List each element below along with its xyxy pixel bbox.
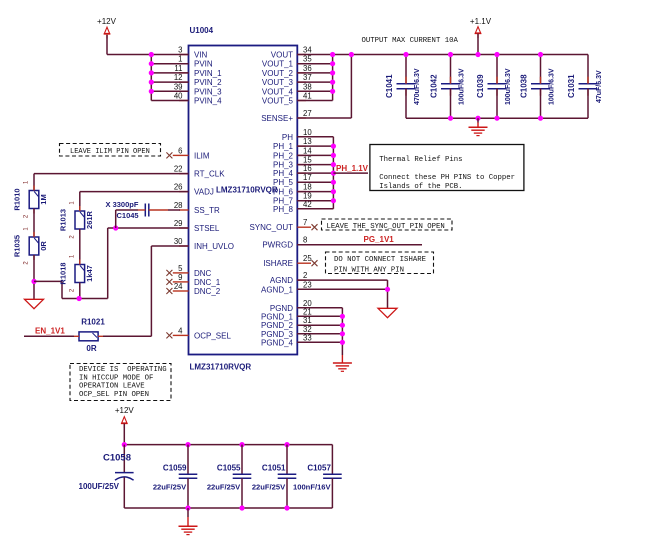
svg-text:VOUT_1: VOUT_1 (262, 60, 294, 69)
capacitor C1055 22uF/25V (207, 464, 251, 492)
wire input cap bottom rail (124, 507, 332, 509)
svg-text:DEVICE IS OPERATING: DEVICE IS OPERATING (79, 366, 167, 374)
junction dots on PH bus (331, 144, 336, 204)
svg-text:PH_2: PH_2 (273, 151, 294, 160)
wire C1042 bottom lead (450, 89, 452, 119)
svg-text:0R: 0R (86, 344, 96, 353)
wire C1055 bottom lead (241, 478, 243, 508)
svg-text:C1051: C1051 (262, 464, 286, 473)
capacitor C1045 3300pF (106, 200, 149, 220)
wire +12V to PVIN bus (107, 35, 151, 55)
no-connect X on ILIM pin 6 (166, 152, 172, 158)
svg-text:261R: 261R (85, 210, 94, 229)
svg-text:VOUT_4: VOUT_4 (262, 87, 294, 96)
pin 9 DNC_1 (left) (173, 273, 221, 287)
junction dots on VOUT bus (330, 52, 335, 94)
resistor R1035 0R (13, 227, 49, 265)
wire C1031 bottom lead (587, 89, 589, 119)
resistor R1021 0R (74, 318, 105, 354)
svg-text:R1021: R1021 (81, 318, 105, 327)
svg-text:LMZ31710RVQR: LMZ31710RVQR (216, 185, 278, 194)
pin 23 AGND_1 (right) (261, 280, 312, 294)
pin 18 PH_6 (right) (273, 183, 312, 197)
svg-text:22uF/25V: 22uF/25V (207, 482, 241, 491)
svg-text:SYNC_OUT: SYNC_OUT (249, 223, 293, 232)
svg-text:PVIN_4: PVIN_4 (194, 97, 222, 106)
pin 1 PVIN (left) (178, 55, 213, 69)
wire C1051 top lead (286, 445, 288, 475)
wire PGND branches (297, 308, 342, 343)
svg-text:3: 3 (178, 46, 182, 55)
pin 26 VADJ (left) (174, 183, 214, 197)
svg-text:LEAVE ILIM PIN OPEN: LEAVE ILIM PIN OPEN (70, 148, 150, 156)
capacitor C1051 22uF/25V (252, 464, 296, 492)
wire input cap top rail (124, 444, 332, 446)
svg-text:C1042: C1042 (430, 74, 439, 98)
pin 40 PVIN_4 (left) (174, 92, 222, 106)
svg-text:Connect these PH PINS to Coppe: Connect these PH PINS to Copper (379, 174, 515, 182)
wire SENSE+ riser (297, 55, 351, 119)
svg-text:9: 9 (178, 273, 182, 282)
svg-text:7: 7 (303, 218, 307, 227)
pin 38 VOUT_4 (right) (262, 82, 312, 96)
note box LEAVE ILIM PIN OPEN (60, 144, 161, 157)
svg-text:33: 33 (303, 333, 312, 342)
note box DO NOT CONNECT ISHARE (326, 252, 434, 274)
pin 42 PH_8 (right) (273, 200, 312, 214)
wire C1038 bottom lead (540, 89, 542, 119)
wire PGND bus (341, 308, 343, 363)
pin 5 DNC (left) (173, 264, 212, 278)
svg-text:C1041: C1041 (385, 74, 394, 98)
ground (triangle) AGND (378, 308, 397, 317)
no-connect X on DNC pin 5 (166, 270, 172, 276)
svg-text:OCP_SEL: OCP_SEL (194, 331, 231, 340)
svg-text:1M: 1M (39, 194, 48, 204)
wire C1045 right plate to SS_TR (149, 209, 180, 211)
svg-text:AGND: AGND (270, 276, 293, 285)
svg-text:14: 14 (303, 146, 312, 155)
junction dots on PVIN bus (149, 52, 154, 94)
svg-text:VIN: VIN (194, 51, 208, 60)
svg-text:28: 28 (174, 201, 183, 210)
svg-text:PVIN_1: PVIN_1 (194, 69, 222, 78)
pin 36 VOUT_2 (right) (262, 64, 312, 78)
svg-text:LEAVE THE SYNC_OUT PIN OPEN: LEAVE THE SYNC_OUT PIN OPEN (327, 223, 445, 231)
svg-text:23: 23 (303, 280, 312, 289)
wire C1039 bottom lead (496, 89, 498, 119)
wire C1041 top lead (405, 55, 407, 84)
svg-text:470uF/6.3V: 470uF/6.3V (414, 68, 421, 105)
wire C1041 bottom lead (405, 89, 407, 119)
svg-text:39: 39 (174, 82, 183, 91)
svg-text:R1018: R1018 (58, 262, 67, 284)
pin 30 INH_UVLO (left) (174, 237, 234, 251)
svg-text:30: 30 (174, 237, 183, 246)
pin 3 VIN (left) (178, 46, 207, 60)
svg-text:100uF/6.3V: 100uF/6.3V (505, 68, 512, 105)
pin 8 PWRGD (right) (262, 236, 307, 250)
net label EN_1V1 (35, 327, 65, 336)
wire AGND node to divider bottom rail (34, 281, 108, 298)
svg-text:C1055: C1055 (217, 464, 241, 473)
no-connect X on DNC_2 pin 24 (166, 288, 172, 294)
resistor R1018 1k47 (58, 254, 94, 292)
wire R1010 to R1035 (33, 209, 35, 238)
svg-text:R1035: R1035 (13, 235, 22, 257)
wire +1.1V riser (477, 34, 479, 55)
svg-text:16: 16 (303, 164, 312, 173)
svg-text:0R: 0R (39, 241, 48, 251)
svg-text:OCP_SEL PIN OPEN: OCP_SEL PIN OPEN (79, 391, 149, 399)
no-connect X on OCP_SEL pin 4 (166, 332, 172, 338)
pin 6 ILIM (left) (173, 146, 210, 160)
pin 14 PH_2 (right) (273, 146, 312, 160)
junction dots input rail top (122, 442, 290, 447)
svg-text:29: 29 (174, 219, 183, 228)
pin 16 PH_4 (right) (273, 164, 312, 178)
pin 34 VOUT (right) (271, 46, 313, 60)
svg-text:C1057: C1057 (307, 464, 331, 473)
svg-text:41: 41 (303, 92, 312, 101)
svg-text:SENSE+: SENSE+ (261, 114, 293, 123)
svg-text:11: 11 (174, 64, 182, 73)
svg-text:6: 6 (178, 146, 182, 155)
svg-text:100uF/6.3V: 100uF/6.3V (459, 68, 466, 105)
pin 13 PH_1 (right) (273, 137, 312, 151)
wire PVIN branches to pins (151, 55, 188, 101)
svg-text:17: 17 (303, 173, 312, 182)
svg-text:PGND_1: PGND_1 (261, 312, 294, 321)
svg-text:AGND_1: AGND_1 (261, 285, 294, 294)
ground (triangle, analog) (25, 299, 44, 308)
svg-text:PH_1.1V: PH_1.1V (336, 164, 369, 173)
svg-text:PH: PH (282, 133, 293, 142)
wire +12V stem bottom (123, 424, 125, 445)
power symbol +12V (bottom) (115, 406, 135, 428)
svg-text:PVIN_2: PVIN_2 (194, 78, 222, 87)
wire C1039 top lead (496, 55, 498, 84)
junction dot STSEL / C1045 node (113, 225, 118, 230)
ground (earth) PGND (333, 363, 352, 371)
svg-text:DNC: DNC (194, 269, 212, 278)
wire C1055 top lead (241, 445, 243, 475)
svg-text:PG_1V1: PG_1V1 (364, 235, 395, 244)
svg-text:C1031: C1031 (567, 74, 576, 98)
pin 7 SYNC_OUT (right) (249, 218, 311, 232)
svg-text:DNC_1: DNC_1 (194, 278, 221, 287)
svg-text:12: 12 (174, 73, 183, 82)
svg-text:PH_1: PH_1 (273, 142, 294, 151)
svg-text:5: 5 (178, 264, 183, 273)
wire R1021 to INH riser (103, 335, 151, 337)
power symbol +12V (top left) (97, 17, 117, 39)
svg-text:VOUT: VOUT (271, 51, 293, 60)
svg-text:STSEL: STSEL (194, 224, 220, 233)
capacitor C1058 100UF/25V (polarized) (79, 445, 134, 508)
svg-text:ILIM: ILIM (194, 151, 210, 160)
wire PVIN input bus (150, 55, 152, 101)
svg-text:Islands of the PCB.: Islands of the PCB. (379, 183, 462, 191)
svg-text:VADJ: VADJ (194, 188, 214, 197)
svg-text:PH_8: PH_8 (273, 205, 294, 214)
pin 24 DNC_2 (left) (173, 282, 221, 296)
svg-text:34: 34 (303, 46, 312, 55)
wire C1051 bottom lead (286, 478, 288, 508)
junction dot R1018 bottom (77, 296, 82, 301)
svg-text:PH_5: PH_5 (273, 178, 294, 187)
svg-text:C1059: C1059 (163, 464, 187, 473)
pin 27 SENSE+ (right) (261, 109, 311, 123)
wire PH bus (332, 137, 334, 209)
svg-text:PVIN_3: PVIN_3 (194, 87, 222, 96)
svg-text:PH_6: PH_6 (273, 188, 294, 197)
resistor R1010 1M (13, 180, 49, 218)
svg-text:VOUT_3: VOUT_3 (262, 78, 294, 87)
pin 15 PH_3 (right) (273, 156, 312, 170)
net label PH_1.1V (333, 164, 368, 173)
svg-text:C1039: C1039 (476, 74, 485, 98)
pin 31 PGND_2 (right) (261, 316, 312, 330)
note box Thermal Relief Pins (370, 145, 524, 192)
pin 29 STSEL (left) (174, 219, 220, 233)
wire output cap bottom rail (406, 117, 588, 119)
svg-text:21: 21 (303, 307, 312, 316)
svg-text:PH_4: PH_4 (273, 169, 294, 178)
pin 11 PVIN_1 (left) (174, 64, 222, 78)
capacitor C1042 100uF/6.3V (430, 68, 466, 105)
svg-text:25: 25 (303, 254, 312, 263)
svg-text:22uF/25V: 22uF/25V (252, 482, 286, 491)
svg-text:24: 24 (174, 282, 183, 291)
svg-text:RT_CLK: RT_CLK (194, 170, 225, 179)
svg-text:PIN WITH ANY PIN: PIN WITH ANY PIN (334, 266, 404, 274)
svg-text:100UF/25V: 100UF/25V (79, 482, 120, 491)
pin 33 PGND_4 (right) (261, 333, 312, 347)
wire PH branches (297, 137, 333, 209)
pin 41 VOUT_5 (right) (262, 92, 312, 106)
svg-text:35: 35 (303, 55, 312, 64)
wire bottom rail up to STSEL (108, 228, 189, 299)
wire VOUT branches (297, 64, 332, 101)
svg-text:2: 2 (303, 271, 307, 280)
svg-text:1k47: 1k47 (85, 265, 94, 282)
svg-text:X 3300pF: X 3300pF (106, 200, 139, 209)
wire INH_UVLO riser (151, 246, 188, 336)
junction dot AGND (385, 287, 390, 292)
no-connect X on SYNC_OUT pin 7 (312, 224, 318, 230)
wire R1013 to R1018 (79, 229, 81, 265)
wire R1018 to bottom rail (79, 283, 81, 299)
pin 2 AGND (right) (270, 271, 307, 285)
ground (earth) output caps (469, 127, 488, 135)
power symbol +1.1V (470, 17, 492, 38)
pin 25 ISHARE (right) (263, 254, 312, 268)
svg-text:VOUT_5: VOUT_5 (262, 97, 294, 106)
wire C1042 top lead (450, 55, 452, 84)
svg-text:18: 18 (303, 183, 312, 192)
wire C1059 top lead (187, 445, 189, 475)
pin 20 PGND (right) (270, 299, 312, 313)
svg-text:37: 37 (303, 73, 312, 82)
svg-text:EN_1V1: EN_1V1 (35, 327, 65, 336)
pin 19 PH_7 (right) (273, 192, 312, 206)
pin 10 PH (right) (282, 128, 312, 142)
svg-text:U1004: U1004 (190, 26, 214, 35)
svg-text:13: 13 (303, 137, 312, 146)
wire C1059 bottom lead (187, 478, 189, 508)
capacitor C1057 100nF/16V (293, 464, 342, 492)
pin 4 OCP_SEL (left) (173, 326, 232, 340)
wire RT_CLK to R1010 (34, 174, 189, 191)
junction dots on output rail bottom (448, 116, 543, 121)
note box DEVICE IS OPERATING hiccup (70, 364, 171, 401)
wire input gnd stem (187, 508, 189, 526)
svg-text:Thermal Relief Pins: Thermal Relief Pins (379, 156, 462, 164)
wire C1057 bottom lead (331, 478, 333, 508)
svg-text:INH_UVLO: INH_UVLO (194, 242, 234, 251)
svg-text:PWRGD: PWRGD (262, 241, 293, 250)
svg-text:PVIN: PVIN (194, 60, 213, 69)
text OUTPUT MAX CURRENT 10A (362, 37, 459, 45)
svg-text:100nF/16V: 100nF/16V (293, 482, 332, 491)
svg-text:DNC_2: DNC_2 (194, 287, 221, 296)
svg-text:8: 8 (303, 236, 307, 245)
wire VOUT top rail (297, 54, 588, 56)
svg-text:+1.1V: +1.1V (470, 17, 492, 26)
wire R1035 to ground node (33, 255, 35, 299)
pin 37 VOUT_3 (right) (262, 73, 312, 87)
svg-text:38: 38 (303, 82, 312, 91)
svg-text:C1038: C1038 (520, 74, 529, 98)
svg-text:OUTPUT MAX CURRENT 10A: OUTPUT MAX CURRENT 10A (362, 37, 459, 45)
svg-text:36: 36 (303, 64, 312, 73)
svg-text:40: 40 (174, 92, 183, 101)
wire VADJ to R1013 (80, 192, 189, 211)
svg-text:47uF/6.3V: 47uF/6.3V (596, 70, 603, 103)
capacitor C1059 22uF/25V (153, 464, 197, 492)
note box LEAVE THE SYNC_OUT PIN OPEN (322, 219, 453, 231)
wire EN_1V1 to R1021 (24, 335, 74, 337)
net label PG_1V1 (364, 235, 395, 244)
svg-text:10: 10 (303, 128, 312, 137)
wire C1045 left plate to STSEL node (116, 210, 146, 228)
svg-text:C1058: C1058 (103, 453, 131, 464)
wire AGND net (297, 280, 387, 308)
no-connect X on DNC_1 pin 9 (166, 279, 172, 285)
svg-text:4: 4 (178, 326, 183, 335)
pin 35 VOUT_1 (right) (262, 55, 312, 69)
svg-text:DO NOT CONNECT ISHARE: DO NOT CONNECT ISHARE (334, 256, 426, 264)
junction dots input rail bottom (185, 505, 289, 510)
svg-text:+12V: +12V (115, 406, 135, 415)
svg-text:R1010: R1010 (13, 188, 22, 210)
svg-text:27: 27 (303, 109, 312, 118)
pin 17 PH_5 (right) (273, 173, 312, 187)
pin 22 RT_CLK (left) (174, 165, 225, 179)
svg-text:ISHARE: ISHARE (263, 259, 293, 268)
no-connect X on ISHARE pin 25 (312, 260, 318, 266)
capacitor C1038 100uF/6.3V (520, 68, 556, 105)
IC U1004 LMZ31710RVQR body (189, 26, 298, 372)
svg-text:R1013: R1013 (58, 209, 67, 231)
svg-text:SS_TR: SS_TR (194, 206, 220, 215)
pin 32 PGND_3 (right) (261, 325, 312, 339)
svg-text:26: 26 (174, 183, 183, 192)
junction dots on output rail top (349, 52, 543, 57)
svg-text:1: 1 (178, 55, 182, 64)
pin 12 PVIN_2 (left) (174, 73, 222, 87)
junction dots on PGND bus (340, 314, 345, 345)
svg-text:100uF/6.3V: 100uF/6.3V (549, 68, 556, 105)
svg-text:+12V: +12V (97, 17, 117, 26)
wire C1038 top lead (540, 55, 542, 84)
capacitor C1031 47uF/6.3V (567, 70, 603, 103)
resistor R1013 261R (58, 201, 94, 239)
svg-text:PGND_4: PGND_4 (261, 338, 294, 347)
svg-text:22uF/25V: 22uF/25V (153, 482, 187, 491)
ground (earth) input caps (179, 526, 198, 534)
wire output gnd stem (477, 118, 479, 127)
svg-text:LMZ31710RVQR: LMZ31710RVQR (190, 363, 252, 372)
wire C1057 top lead (331, 445, 333, 475)
wire C1031 top lead (587, 55, 589, 84)
svg-text:C1045: C1045 (117, 211, 139, 220)
svg-text:OPERATION LEAVE: OPERATION LEAVE (79, 383, 145, 391)
wire PWRGD net (297, 244, 422, 246)
svg-text:22: 22 (174, 165, 183, 174)
svg-text:VOUT_2: VOUT_2 (262, 69, 294, 78)
junction dot AGND node (31, 279, 36, 284)
pin 39 PVIN_3 (left) (174, 82, 222, 96)
pin 28 SS_TR (left) (174, 201, 220, 215)
svg-text:IN HICCUP MODE OF: IN HICCUP MODE OF (79, 374, 153, 382)
wire VOUT bus (332, 55, 334, 101)
pin 21 PGND_1 (right) (261, 307, 312, 321)
capacitor C1041 470uF/6.3V (385, 68, 421, 105)
capacitor C1039 100uF/6.3V (476, 68, 512, 105)
